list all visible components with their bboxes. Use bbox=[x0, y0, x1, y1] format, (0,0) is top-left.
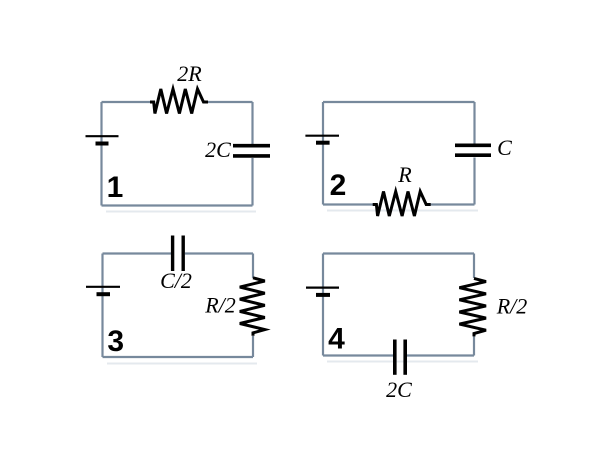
svg-text:2R: 2R bbox=[177, 61, 202, 86]
svg-text:R: R bbox=[397, 162, 412, 187]
svg-text:C: C bbox=[497, 135, 512, 160]
svg-text:2: 2 bbox=[330, 169, 347, 202]
svg-text:2C: 2C bbox=[205, 137, 231, 162]
svg-text:R/2: R/2 bbox=[496, 294, 528, 319]
svg-text:C/2: C/2 bbox=[160, 268, 192, 293]
svg-text:2C: 2C bbox=[386, 377, 412, 402]
svg-text:3: 3 bbox=[107, 325, 124, 358]
svg-text:4: 4 bbox=[328, 323, 345, 356]
svg-text:R/2: R/2 bbox=[204, 293, 236, 318]
svg-text:1: 1 bbox=[107, 171, 124, 204]
